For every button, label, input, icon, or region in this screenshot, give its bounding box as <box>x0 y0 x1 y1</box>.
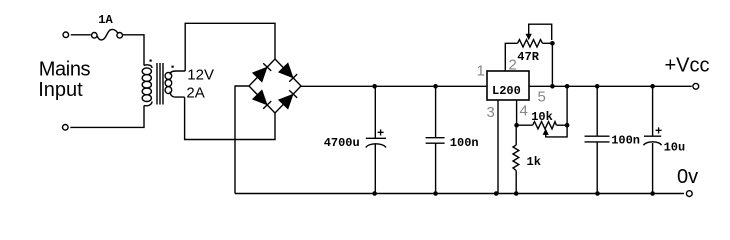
resistor R3 1k <box>515 125 517 145</box>
svg-text:10k: 10k <box>531 110 553 124</box>
mains input bottom terminal <box>63 125 69 131</box>
svg-text:12V: 12V <box>187 67 214 84</box>
wire 10k junction up to rail <box>566 86 568 125</box>
svg-text:Input: Input <box>38 79 83 101</box>
transformer T1 primary winding <box>144 65 152 68</box>
bridge diode D1 top-left <box>253 63 271 81</box>
resistor R2 10k zigzag <box>533 122 557 129</box>
svg-text:1: 1 <box>477 63 485 80</box>
wire <box>123 35 144 66</box>
svg-text:L200: L200 <box>492 84 521 98</box>
wire secondary bottom to bridge <box>185 97 275 139</box>
svg-text:+: + <box>655 125 662 139</box>
svg-text:47R: 47R <box>517 50 539 64</box>
regulator U1 L200 box <box>487 71 529 100</box>
svg-text:1k: 1k <box>527 155 541 169</box>
bridge diode D2 top-right <box>279 64 297 82</box>
svg-text:3: 3 <box>487 104 495 121</box>
pin 2 wire <box>505 43 517 71</box>
+V top rail <box>301 85 487 87</box>
wire node to 10k <box>517 124 533 126</box>
svg-text:2: 2 <box>509 57 517 74</box>
wire junction down to rail <box>551 43 553 86</box>
bridge diode D3 bottom-left <box>253 91 271 109</box>
svg-text:5: 5 <box>538 89 546 106</box>
svg-text:+Vcc: +Vcc <box>665 55 710 77</box>
47R wiper arrow <box>526 34 532 40</box>
10k wiper arm <box>546 125 567 137</box>
transformer T1 secondary winding <box>170 71 185 75</box>
svg-text:2A: 2A <box>186 85 204 102</box>
transformer phase dot secondary <box>172 66 174 68</box>
pin 4 wire <box>516 100 518 125</box>
47R wiper arm <box>529 24 552 40</box>
capacitor C1 4700u <box>374 86 376 138</box>
0v bottom rail <box>235 193 684 195</box>
transformer phase dot primary <box>150 60 152 62</box>
svg-text:10u: 10u <box>664 140 686 154</box>
resistor R1 47R zigzag <box>518 40 543 47</box>
pin 3 wire <box>497 100 499 194</box>
svg-text:+: + <box>377 127 384 141</box>
+Vcc terminal <box>693 83 699 89</box>
mains input top terminal <box>63 32 69 38</box>
wire 10k right to junction <box>556 124 567 126</box>
capacitor C3 100n <box>596 86 598 136</box>
wire <box>71 34 91 36</box>
svg-text:100n: 100n <box>450 136 479 150</box>
svg-text:4700u: 4700u <box>324 136 360 150</box>
wire secondary top to bridge <box>185 23 275 71</box>
bridge rectifier diamond <box>249 59 301 113</box>
bridge diode D4 bottom-right <box>279 90 297 108</box>
transformer core <box>156 63 158 105</box>
svg-text:100n: 100n <box>611 134 640 148</box>
capacitor C4 10u <box>652 86 654 136</box>
0v terminal <box>686 191 692 197</box>
fuse F1 1A <box>92 33 98 39</box>
capacitor C2 100n <box>435 86 437 137</box>
10k wiper arrow <box>543 129 549 135</box>
svg-text:0v: 0v <box>677 166 698 188</box>
wire 47R right to junction <box>543 42 553 44</box>
svg-text:4: 4 <box>520 103 528 120</box>
svg-text:Mains: Mains <box>39 59 91 81</box>
top rail right of L200 <box>529 85 692 87</box>
svg-text:1A: 1A <box>98 13 113 27</box>
wire bridge left vertex to 0v rail <box>235 86 249 194</box>
wire <box>70 106 144 128</box>
